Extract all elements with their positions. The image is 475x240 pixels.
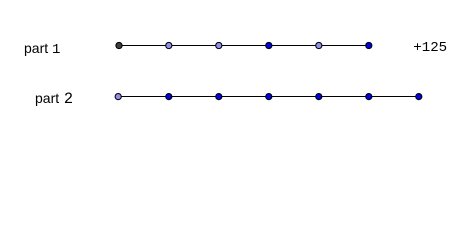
svg-text:part 1: part 1 <box>24 40 60 58</box>
node B1 <box>115 94 121 100</box>
node B4 <box>266 94 272 100</box>
node B2 <box>166 94 172 100</box>
node A2 <box>166 42 172 48</box>
node A1 <box>116 42 122 48</box>
node B6 <box>366 94 372 100</box>
node B5 <box>316 94 322 100</box>
wire line 2 <box>119 96 419 98</box>
svg-text:+125: +125 <box>413 40 447 56</box>
node B3 <box>216 94 222 100</box>
node B7 <box>416 94 422 100</box>
svg-text:part 2: part 2 <box>35 90 73 108</box>
node A3 <box>216 42 222 48</box>
node A6 <box>366 42 372 48</box>
wire line 1 <box>119 45 369 47</box>
node A5 <box>316 42 322 48</box>
node A4 <box>266 42 272 48</box>
